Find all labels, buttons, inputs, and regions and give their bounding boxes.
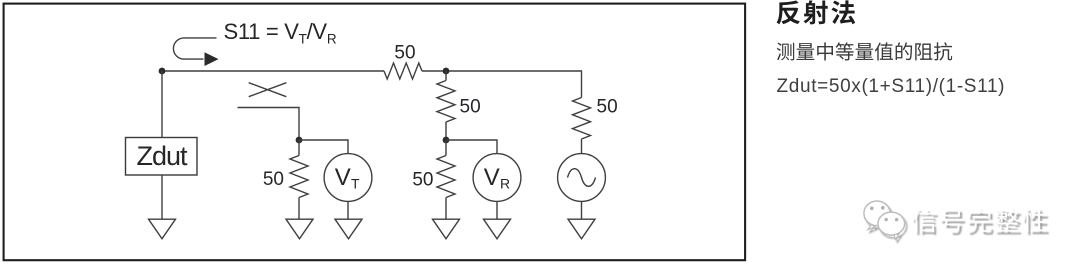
hook arrow (reflection direction) (173, 38, 216, 59)
svg-text:V: V (335, 164, 351, 191)
ground under VT (335, 219, 362, 239)
wire node D to VT meter (299, 140, 348, 154)
svg-text:50: 50 (597, 97, 618, 118)
wire VR to ground (496, 201, 498, 219)
node A junction dot (159, 68, 166, 75)
node C junction dot (443, 137, 450, 144)
svg-text:50: 50 (394, 43, 415, 64)
node B junction dot (443, 68, 450, 75)
svg-text:Zdut=50x(1+S11)/(1-S11): Zdut=50x(1+S11)/(1-S11) (777, 76, 1006, 97)
voltmeter VR (473, 154, 521, 202)
wire source to ground (581, 201, 583, 219)
wire main horizontal top (162, 71, 582, 98)
title 反射法 (777, 0, 856, 24)
ground G5 under source (568, 219, 595, 239)
resistor R1 50 horizontal (384, 63, 422, 79)
svg-text:V: V (484, 164, 500, 191)
wire Zdut to ground (161, 175, 163, 219)
ground G2 under R2 (286, 219, 313, 239)
wire node A down to Zdut (161, 71, 163, 138)
voltmeter VT (324, 154, 372, 202)
schematic border frame (4, 4, 746, 261)
switch X symbol (249, 83, 287, 97)
AC source V1 (558, 154, 606, 202)
svg-text:Zdut: Zdut (136, 141, 188, 171)
watermark WeChat logo and text 信号完整性 (white pass) (864, 201, 1047, 239)
svg-text:S11 = VT/VR: S11 = VT/VR (224, 19, 337, 46)
ground G3 under R5 (433, 219, 460, 239)
Zdut box (126, 138, 198, 176)
subtitle 测量中等量值的阻抗 (777, 42, 952, 60)
node D junction dot (296, 137, 303, 144)
resistor R3 50 (below node B) (445, 71, 447, 140)
resistor R4 50 (source branch) (573, 98, 591, 154)
resistor R2 50 (VT branch) (298, 140, 300, 219)
svg-text:T: T (351, 176, 360, 192)
ground G1 under Zdut (149, 219, 176, 239)
svg-text:50: 50 (460, 97, 481, 118)
ground G4 under VR (484, 219, 511, 239)
svg-text:50: 50 (263, 169, 284, 190)
wire VT to ground (347, 201, 349, 219)
wire sampling branch from X line down to node D (238, 108, 300, 141)
svg-text:50: 50 (412, 170, 433, 191)
wire node C to VR meter (446, 140, 497, 154)
svg-text:R: R (500, 176, 510, 192)
resistor R5 50 (node C to ground) (445, 140, 447, 219)
watermark WeChat logo and text 信号完整性 (shadow pass) (866, 204, 1049, 242)
